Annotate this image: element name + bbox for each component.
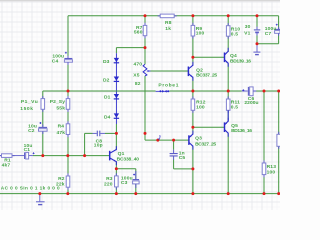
label P2_Sy [50,99,65,111]
wire input line [0,155,110,157]
junction ground rail / R14 [277,192,280,195]
label R11 [231,100,240,111]
svg-text:AC 0 0 Sin 0 1 1k 0 0 0: AC 0 0 Sin 0 1 1k 0 0 0 [1,186,60,191]
svg-text:R3: R3 [106,176,113,182]
lead C3 stubs [135,171,137,188]
label R13 [267,164,277,176]
wire R13 column [263,91,265,194]
wire Q1 emitter vertical [115,162,117,169]
probe Probe1 [156,90,170,93]
svg-text:150k: 150k [20,106,33,112]
junction ground rail / R3 [115,192,118,195]
wire C8 branch [85,133,117,155]
junction output rail / P2 [67,90,70,93]
resistor R13 100 [262,160,266,177]
junction C5 branch node [172,139,175,142]
svg-text:C7: C7 [265,31,272,37]
wire output mid rail [43,90,280,92]
label D4 [104,114,111,120]
wire X5 column upper [144,48,146,65]
svg-text:0.5: 0.5 [231,32,238,38]
junction output rail / Q2 emitter [191,90,194,93]
svg-text:C4: C4 [52,58,59,64]
junction ground rail / Q3 [191,192,194,195]
diode D4 [114,113,119,118]
svg-text:BC337_25: BC337_25 [196,73,217,79]
junction ground rail / gnd [38,192,41,195]
wire R14 column [278,91,280,194]
junction input node / C2 [41,154,44,157]
transistor Q2 BC337_25 [188,62,193,81]
junction Q3 collector / C5 node [191,167,194,170]
resistor R2 22k [66,173,70,189]
capacitor C7 100u [275,24,280,34]
label R1 [2,158,11,169]
junction Q3 emitter node [191,126,194,129]
label C3 [121,175,133,186]
wire diode chain column [115,48,117,134]
capacitor C5 1n [170,154,178,156]
junction bias bottom node [144,132,147,135]
svg-text:R8: R8 [165,20,172,26]
junction ground rail / C3 [134,192,137,195]
svg-text:2200u: 2200u [244,100,258,106]
lead C4 stubs [67,56,69,65]
wire bias feed horizontal [116,47,145,49]
label D2 [103,78,110,84]
wire Q5 collector to ground rail [227,134,229,194]
svg-text:R4: R4 [58,124,65,130]
junction V1 negative node [256,42,259,45]
wire R7 column [144,16,146,48]
svg-text:4k7: 4k7 [2,162,11,168]
svg-text:220: 220 [104,181,113,187]
diode D1 [114,94,119,99]
label C2 [28,124,37,134]
label P1_Vu [20,99,38,112]
svg-text:BD139_16: BD139_16 [230,58,251,64]
wire R12 column [192,91,194,127]
wire C5 bottom jog [174,156,193,169]
wire Q1 emitter node to C3 [116,169,135,194]
transistor Q1 BC338_40 [110,146,117,165]
label V2 source parameters [1,186,60,191]
svg-text:Probe1: Probe1 [158,82,178,88]
svg-text:100u: 100u [265,26,277,32]
svg-text:C5: C5 [179,155,186,161]
wire Q5 base feed [193,126,224,128]
svg-text:D3: D3 [103,59,110,65]
wire Q2 emitter to output rail [192,78,194,91]
wire C5 top [173,140,175,153]
capacitor C6 2200u [242,87,253,96]
svg-text:C2: C2 [28,128,35,134]
junction input node / R4 R2 [66,154,69,157]
wire Q2 collector vertical [192,57,194,65]
svg-text:Q2: Q2 [196,67,203,73]
potentiometer P2_Sy 55k [66,96,70,112]
label R10 [231,27,241,38]
svg-text:J: J [158,136,161,142]
label C1 [24,143,33,153]
svg-text:Q1: Q1 [118,151,125,157]
potentiometer P1_Vu 150k [41,96,45,112]
ground at signal source [36,194,45,205]
label Q4 [230,53,251,64]
resistor R8 1k [158,14,177,18]
junction ground rail / R2 [66,192,69,195]
svg-text:1k: 1k [165,26,171,32]
resistor R1 4k7 [0,154,15,158]
svg-text:0.5: 0.5 [231,105,238,111]
svg-text:30: 30 [245,24,251,30]
wire V1 column [256,16,258,44]
diode D2 [114,77,119,82]
wire R9 column [192,16,194,58]
wire Q3 collector to ground rail [192,147,194,194]
junction output rail / Q4 emitter [227,90,230,93]
lead C6 right stub [253,90,256,92]
capacitor C1 10u [25,152,35,159]
node label J [158,136,161,142]
label Probe1 [158,82,178,88]
svg-text:100: 100 [196,31,205,37]
svg-text:D4: D4 [104,114,111,120]
svg-text:470: 470 [133,62,142,68]
wire Q4 emitter to output rail [227,64,229,91]
junction Q1 collector node [115,132,118,135]
svg-text:BC327_25: BC327_25 [195,141,216,147]
svg-text:V1: V1 [244,31,250,37]
svg-text:C3: C3 [121,180,128,186]
junction top rail / R7 [144,14,147,17]
svg-text:C1: C1 [24,147,31,153]
label R12 [196,100,206,111]
wire V1 bottom to C7 bottom [257,34,279,44]
junction output rail / R13 [263,90,266,93]
label D3 [103,59,110,65]
wire bootstrap column to C4 [67,16,69,91]
svg-text:100: 100 [267,170,276,176]
svg-text:R13: R13 [267,164,277,170]
junction ground rail / R13 [263,192,266,195]
label R9 [196,26,205,36]
capacitor C3 100u [133,174,140,184]
wire Q3 emitter vertical [192,127,194,134]
label Q2 [196,67,217,78]
junction top rail / V1 [256,14,259,17]
junction input node / C8 [83,154,86,157]
transistor Q3 BC327_25 [189,131,193,150]
svg-text:P2_Sy: P2_Sy [50,99,65,105]
svg-text:X5: X5 [133,72,139,78]
label R7 [134,25,143,36]
wire P1 column [42,91,44,156]
resistor R9 100 [191,23,195,39]
label C4 [52,54,64,65]
label R8 [165,20,172,32]
resistor R4 47k [66,121,70,137]
transistor Q4 BD139_16 [225,48,229,67]
label C7 [265,26,277,37]
label R3 [104,176,113,187]
wire P2 R4 R2 column [67,91,69,194]
svg-text:Q4: Q4 [230,53,237,59]
lead Q5 emitter blue [227,110,229,121]
svg-text:Q5: Q5 [231,123,238,129]
resistor R3 220 [115,173,119,189]
wire ground rail [0,193,280,195]
label R2 [56,176,65,188]
junction Q4 base node [191,56,194,59]
junction output rail / R14 [277,90,280,93]
diode D3 [114,58,119,63]
svg-text:100: 100 [196,105,205,111]
svg-text:D1: D1 [104,94,111,100]
capacitor C4 100u [64,52,72,62]
svg-text:47k: 47k [56,130,65,136]
junction node J [156,139,159,142]
lead V1 stubs [256,27,258,36]
resistor R11 0.5 [226,96,230,113]
wire Q4 base feed [193,56,224,58]
junction bias node A [144,46,147,49]
lead C2 stubs [42,124,44,134]
wire top supply rail [68,15,279,17]
lead C7 stubs [278,27,280,36]
wire R10 column [227,16,229,52]
transistor Q5 BD136_16 [225,118,229,137]
junction ground rail / Q5 [227,192,230,195]
svg-text:55k: 55k [56,105,65,111]
wire Q3 base path [145,133,189,140]
wire X5 column lower long [144,76,146,133]
svg-text:82: 82 [135,81,141,87]
label D1 [104,94,111,100]
junction top rail / R10 [227,14,230,17]
label Q3 [195,136,216,148]
resistor R7 560 [143,23,147,39]
wire X5 wiper to Q2 base [150,70,188,72]
label C5 [179,150,186,161]
wire Q1 collector vertical [115,133,117,149]
capacitor C2 10u [39,122,48,131]
wire R3 column [115,169,117,194]
resistor R14 load [277,132,281,149]
svg-text:Q3: Q3 [195,136,202,142]
svg-text:P1_Vu: P1_Vu [21,99,38,105]
wire R11 column [227,91,229,121]
wire C7 top column [278,16,280,29]
svg-text:R2: R2 [58,176,65,182]
ground under V1 [253,44,260,55]
junction top rail / R9 [191,14,194,17]
label Q5 [231,123,252,134]
label C8 [94,138,103,148]
junction Q1 emitter node [115,167,118,170]
label Q1 [117,151,140,162]
resistor R10 0.5 [226,23,230,39]
potentiometer X5 470 [143,64,150,76]
resistor R12 100 [191,96,195,113]
svg-text:BD136_16: BD136_16 [231,128,252,134]
label V1 [244,24,250,36]
svg-text:D2: D2 [103,78,110,84]
battery V1 30V [254,30,260,33]
svg-text:BC338_40: BC338_40 [117,156,140,162]
svg-text:10p: 10p [94,143,103,149]
svg-text:560: 560 [134,30,143,36]
capacitor C8 10p [97,131,100,137]
label R4 [56,124,65,136]
label C6 [244,96,258,106]
label X5 [133,62,142,87]
